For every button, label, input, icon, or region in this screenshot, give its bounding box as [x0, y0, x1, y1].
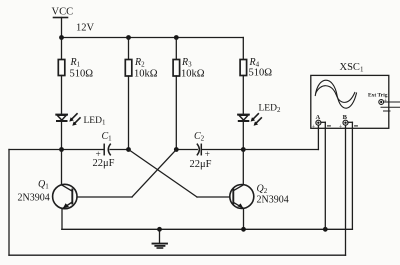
node Q2 emitter junction	[241, 227, 246, 232]
resistor R2	[125, 38, 157, 150]
svg-text:LED2: LED2	[259, 104, 281, 115]
resistor R4	[240, 57, 272, 114]
wire cross diagonal to Q1 base	[71, 150, 177, 198]
svg-text:LED1: LED1	[84, 116, 106, 127]
scope terminal A	[312, 114, 331, 131]
wire C1 row left	[62, 149, 105, 151]
svg-text:VCC: VCC	[52, 7, 74, 18]
svg-text:510Ω: 510Ω	[70, 69, 94, 80]
wire VCC top rail	[62, 37, 244, 39]
node R2 bottom junction	[126, 147, 131, 152]
svg-text:22μF: 22μF	[93, 158, 115, 169]
node VCC junction	[59, 35, 64, 40]
ground	[153, 229, 168, 248]
power symbol VCC	[52, 7, 74, 38]
svg-text:510Ω: 510Ω	[249, 68, 273, 79]
oscilloscope XSC1	[311, 62, 400, 131]
scope terminal B	[339, 114, 358, 131]
svg-text:12V: 12V	[76, 23, 95, 34]
node R2 top junction	[126, 35, 131, 40]
capacitor C2	[190, 131, 244, 170]
capacitor C1	[93, 131, 129, 169]
node Q2 collector junction	[241, 147, 246, 152]
LED LED2	[238, 104, 281, 150]
wire scope A minus drop	[321, 122, 325, 229]
svg-text:2N3904: 2N3904	[18, 193, 50, 204]
transistor Q2	[230, 150, 289, 230]
node Q1 collector junction	[59, 147, 64, 152]
wire scope B minus drop	[348, 122, 352, 229]
LED LED1	[56, 114, 106, 150]
svg-text:2N3904: 2N3904	[257, 195, 289, 206]
wire rail drop to R4	[242, 38, 244, 60]
wire cross diagonal to Q2 base	[129, 150, 234, 198]
node R3 top junction	[174, 35, 179, 40]
svg-text:+: +	[312, 125, 316, 131]
resistor R3	[173, 38, 205, 150]
svg-text:10kΩ: 10kΩ	[181, 69, 205, 80]
wire C2 row left	[176, 149, 197, 151]
wire Q1 collector to scope B loop	[9, 125, 346, 255]
wire emitter ground rail	[62, 228, 353, 230]
node ground junction	[157, 227, 162, 232]
svg-text:10kΩ: 10kΩ	[134, 69, 158, 80]
transistor Q1	[18, 150, 78, 230]
resistor R1	[58, 38, 93, 114]
node R3 bottom junction	[174, 147, 179, 152]
svg-text:22μF: 22μF	[190, 159, 212, 170]
node scope A minus junction	[323, 227, 328, 232]
wire Q2 collector to scope A	[243, 125, 318, 149]
